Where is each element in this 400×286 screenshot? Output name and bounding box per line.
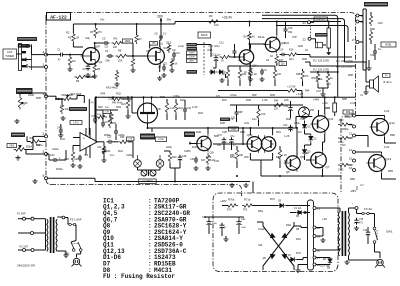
svg-text:R22: R22: [180, 98, 185, 102]
top rail left: [73, 23, 163, 25]
svg-text:R2: R2: [66, 31, 70, 35]
svg-text:R28: R28: [36, 96, 41, 100]
svg-text:R9: R9: [209, 14, 213, 18]
svg-text:22K: 22K: [113, 46, 118, 49]
svg-text:R15: R15: [208, 48, 213, 52]
svg-text:15: 15: [349, 157, 353, 161]
svg-text:R34: R34: [106, 150, 111, 153]
svg-text:R32: R32: [116, 92, 121, 96]
svg-text:.068: .068: [105, 60, 110, 63]
jack J2: [141, 170, 147, 176]
white label j40: [228, 127, 238, 131]
svg-text:1K: 1K: [222, 73, 225, 76]
svg-text:1K: 1K: [270, 54, 273, 58]
svg-text:0.22: 0.22: [350, 101, 356, 105]
wire right mid bus: [310, 71, 338, 73]
capacitor C14: [281, 53, 283, 56]
resistor R34: [102, 144, 105, 156]
capacitor C21: [59, 129, 63, 131]
transistor Q9: [197, 136, 211, 150]
svg-text:56P: 56P: [252, 93, 257, 97]
connector strip power: [308, 200, 314, 270]
svg-text:(2K): (2K): [289, 58, 294, 61]
svg-text:220u: 220u: [166, 145, 172, 149]
svg-text:R71a: R71a: [244, 198, 251, 202]
svg-text:(L): (L): [160, 44, 163, 46]
pin 19: [356, 14, 359, 17]
wire bridge to connector: [294, 245, 308, 247]
resistor R61 0.5ohm: [338, 136, 350, 139]
ground under balance pot: [17, 156, 19, 158]
wire balance to pin2: [25, 149, 33, 151]
capacitor C12: [233, 50, 237, 52]
svg-text:C9: C9: [172, 48, 176, 52]
capacitor C22: [53, 158, 55, 162]
svg-text:Q7: Q7: [326, 165, 330, 169]
pin 21b: [313, 207, 316, 210]
wire pin28 stub: [298, 264, 308, 266]
board outline right edge: [341, 17, 356, 192]
transistor Q4 (2SC2240): [239, 50, 253, 64]
svg-text:22K: 22K: [118, 60, 123, 63]
svg-text:R181: R181: [385, 42, 392, 46]
resistor row r43: [273, 68, 276, 80]
ground under volume pot: [16, 119, 18, 121]
svg-text:4u7: 4u7: [238, 59, 243, 63]
svg-text:C5: C5: [105, 45, 109, 49]
svg-text:0.22: 0.22: [384, 145, 390, 149]
svg-text:C15: C15: [288, 27, 293, 30]
svg-text:250K: 250K: [28, 93, 34, 97]
transistor Q12 (2SD736A): [372, 119, 389, 136]
svg-text:C10: C10: [176, 53, 181, 55]
svg-text:17: 17: [352, 38, 356, 42]
label R81: [381, 42, 396, 47]
transformer center tap: [340, 249, 346, 251]
svg-text:1u: 1u: [378, 47, 381, 51]
svg-text:C35: C35: [222, 130, 227, 134]
svg-text:(B): (B): [91, 102, 94, 104]
svg-text:C20a: C20a: [56, 97, 63, 101]
connector inner components: [369, 14, 372, 26]
white label 2.2m: [156, 137, 167, 142]
resistor R62: [338, 163, 350, 166]
pin 14: [353, 151, 356, 154]
svg-text:R73: R73: [296, 251, 301, 255]
svg-text:R83: R83: [388, 169, 393, 173]
balance pot: [14, 148, 27, 151]
dark label volume: [16, 88, 33, 94]
svg-text:R23: R23: [198, 111, 203, 115]
wire r44: [297, 90, 302, 92]
capacitor C31 56P: [235, 111, 239, 113]
white label VR2: [7, 144, 17, 148]
svg-text:C34: C34: [244, 121, 249, 125]
white label bias box: [198, 32, 211, 38]
transistor Q6 (2SA970): [265, 37, 280, 52]
svg-text:2.2K: 2.2K: [192, 105, 198, 109]
svg-text:C25a: C25a: [126, 153, 133, 157]
svg-text:R51: R51: [276, 130, 281, 134]
svg-text:TUNER: TUNER: [5, 54, 14, 58]
preout relay box: [316, 42, 323, 48]
svg-text:R34a: R34a: [56, 167, 63, 171]
svg-text:+1.2V: +1.2V: [296, 92, 303, 96]
svg-text:R80: R80: [370, 27, 375, 31]
resistor R40 vert: [168, 151, 171, 163]
wire pin3 lead: [26, 153, 45, 155]
svg-text:SW1: SW1: [386, 230, 393, 234]
ground under transformer: [346, 260, 348, 262]
svg-text:C2p: C2p: [85, 36, 90, 40]
wire f3: [356, 210, 358, 214]
bridge connections: [262, 222, 264, 226]
svg-text:R22: R22: [179, 107, 184, 110]
wire r9 to q2 drop: [122, 42, 134, 44]
svg-text:1K: 1K: [306, 151, 309, 155]
svg-text:0.5: 0.5: [284, 159, 288, 163]
cap C45 470: [354, 219, 359, 221]
cap C37 100uF: [222, 139, 227, 141]
wire preout path: [286, 21, 308, 23]
wire bottom mid: [164, 150, 170, 152]
svg-text:F1 3A: F1 3A: [294, 206, 301, 210]
svg-text:0.5: 0.5: [216, 94, 220, 98]
resistor row r40: [226, 68, 229, 80]
bias diode D1: [302, 124, 306, 128]
svg-text:C12 .047µ: C12 .047µ: [209, 45, 221, 48]
svg-text:470: 470: [98, 31, 103, 34]
wire q5 collector up: [296, 128, 298, 156]
svg-text:220: 220: [378, 21, 383, 25]
svg-text:+: +: [83, 136, 85, 140]
svg-text:50P: 50P: [96, 47, 101, 49]
svg-text:1u: 1u: [60, 104, 63, 108]
svg-text:C30: C30: [187, 107, 192, 110]
series resistor R9 100: [207, 20, 220, 23]
svg-text:1K: 1K: [175, 64, 178, 66]
svg-text:C1: C1: [57, 48, 61, 52]
diode D7 scp: [291, 257, 295, 261]
title box AF-122: [47, 13, 71, 21]
capacitor C10q2: [172, 53, 176, 55]
svg-text:R47: R47: [201, 159, 206, 162]
svg-text:22K: 22K: [274, 108, 279, 111]
resistor R8b: [131, 57, 134, 68]
svg-text:R40: R40: [172, 156, 177, 159]
wire c31: [236, 105, 238, 110]
resistor R50 30K: [235, 148, 238, 161]
svg-text:R24: R24: [284, 41, 289, 45]
svg-text:1K: 1K: [305, 48, 308, 52]
svg-text:R53: R53: [230, 155, 235, 159]
diode D8 at connector: [328, 259, 332, 263]
resistor R9 horiz: [112, 41, 124, 44]
svg-text:R20: R20: [160, 95, 165, 99]
svg-text:100: 100: [214, 23, 219, 27]
fuse F3: [362, 212, 364, 214]
svg-text:3: 3: [43, 150, 45, 154]
speaker symbol: [370, 80, 374, 88]
svg-text:C28b: C28b: [184, 149, 191, 153]
ground symbols bottom: [231, 183, 233, 185]
svg-text:Q1: Q1: [99, 60, 103, 64]
capacitor C15 100P: [284, 28, 288, 30]
resistor R57 vert: [326, 72, 329, 84]
pin 22: [308, 37, 311, 40]
svg-text:KR2 44kΩ: KR2 44kΩ: [106, 87, 118, 90]
resistor R11b 1K: [170, 58, 173, 68]
diode pair d10: [211, 70, 215, 74]
wire cap rail: [204, 216, 244, 218]
resistor R21 2.2K: [165, 101, 168, 114]
protection wire right: [286, 205, 310, 207]
svg-text:1.5K: 1.5K: [262, 98, 268, 102]
wire diode drop: [225, 74, 227, 78]
dark label bass: [69, 107, 87, 111]
svg-text:1000: 1000: [241, 227, 247, 229]
white label 180k: [123, 39, 133, 43]
wire R30: [40, 141, 46, 143]
svg-text:R72: R72: [270, 197, 275, 201]
transformer T1 core: [341, 211, 343, 256]
resistor R35: [118, 140, 130, 143]
dark label stack row6: [187, 70, 198, 74]
rail drops: [135, 158, 137, 182]
svg-text:R49: R49: [196, 130, 201, 134]
resistor R16: [249, 66, 252, 77]
svg-text:C42: C42: [283, 124, 288, 127]
capacitor C9: [260, 70, 264, 72]
dark label stack row2: [187, 47, 198, 50]
svg-text:R33: R33: [116, 105, 121, 109]
svg-text:30K: 30K: [239, 154, 244, 157]
svg-text:9: 9: [43, 174, 45, 178]
cap C38: [229, 139, 234, 141]
resistor R38 1.5K: [257, 107, 260, 120]
bias diode D2: [309, 136, 313, 140]
dark label speaker system: [364, 2, 388, 7]
svg-text:F1 3AF: F1 3AF: [17, 212, 26, 216]
svg-text:10HZ: 10HZ: [189, 53, 195, 55]
pin 5: [45, 95, 48, 98]
svg-text:+28V: +28V: [220, 199, 227, 203]
svg-text:D9a: D9a: [286, 223, 291, 227]
wire rails join: [163, 23, 175, 25]
resistor row r41: [238, 68, 241, 80]
resistor R20 rect: [327, 28, 330, 48]
svg-text:C44: C44: [258, 244, 263, 247]
svg-text:R60a: R60a: [342, 127, 349, 131]
svg-text:R84: R84: [350, 177, 355, 181]
pair top leads: [249, 128, 251, 135]
svg-text:C24: C24: [74, 158, 79, 161]
svg-text:2.2m: 2.2m: [158, 138, 164, 141]
wire q13 leads: [356, 162, 369, 164]
svg-text:8 ohm: 8 ohm: [384, 80, 393, 84]
pair bottom leads: [249, 153, 251, 160]
svg-text:-28: -28: [322, 257, 326, 261]
svg-text:R18: R18: [289, 49, 294, 52]
svg-text:FU 220 1/2W: FU 220 1/2W: [336, 59, 353, 63]
svg-text:R65: R65: [342, 97, 347, 101]
wire R18 right: [297, 54, 310, 56]
Q2 drain wire: [159, 40, 161, 47]
svg-text:Q11: Q11: [328, 117, 334, 121]
wire C22 on: [58, 159, 66, 161]
svg-text:R31: R31: [60, 137, 65, 141]
wire Q4-Q6 coupling: [250, 44, 252, 48]
svg-text:13: 13: [349, 132, 353, 136]
resistor row r42: [248, 68, 251, 80]
transformer T2 core: [50, 217, 52, 253]
svg-text:C24: C24: [97, 146, 102, 149]
svg-text:C21: C21: [108, 97, 113, 101]
board outline left edge: [46, 20, 51, 185]
svg-text:R41: R41: [242, 73, 247, 76]
jack J4: [156, 160, 164, 168]
wire ic1 out: [98, 141, 105, 143]
svg-text:VR4 44kB: VR4 44kB: [70, 93, 82, 96]
resistor R8c vert: [115, 70, 118, 81]
svg-text:R21: R21: [122, 103, 127, 106]
svg-text:R26: R26: [302, 57, 307, 61]
resistor R17: [275, 54, 278, 65]
pin 4: [45, 53, 48, 56]
wire q2 drain label: [149, 44, 151, 49]
svg-text:R50: R50: [240, 130, 245, 134]
resistor R11: [167, 43, 170, 53]
svg-text:C44a: C44a: [258, 227, 265, 231]
svg-text:8.2K: 8.2K: [206, 155, 212, 159]
dark label phones: [315, 33, 328, 37]
dark label balance: [11, 133, 25, 138]
resistor R41h: [112, 97, 124, 100]
resistor R47 emitter: [206, 153, 209, 165]
svg-text:1u+: 1u+: [110, 153, 115, 157]
wire tone bus: [94, 110, 96, 117]
tone feed cluster: [95, 97, 97, 143]
capacitor C8 on drain: [159, 35, 163, 37]
svg-text:C50: C50: [370, 53, 375, 57]
svg-text:C22a: C22a: [52, 147, 59, 151]
ic1 pin stubs: [85, 128, 87, 136]
pin 21: [308, 21, 311, 24]
switch linkage dashed: [203, 42, 205, 75]
svg-text:C22: C22: [50, 154, 55, 157]
horizontal 220 wire 1: [310, 56, 352, 58]
svg-text:FU, 220 1/2W: FU, 220 1/2W: [313, 58, 330, 62]
protection resistor R71: [242, 204, 254, 207]
cap C40 1000uF: [207, 221, 212, 223]
svg-text:4K: 4K: [252, 37, 255, 39]
dark label input select: [17, 37, 37, 41]
svg-text:C28: C28: [182, 155, 187, 158]
svg-text:C14: C14: [279, 50, 284, 52]
jack J1: [134, 160, 142, 168]
cap C39 right: [288, 107, 293, 109]
svg-text:C33: C33: [214, 159, 219, 163]
wire to Q2 gate: [127, 55, 149, 57]
jack wires: [137, 167, 139, 170]
transformer T2 secondary leads: [57, 216, 62, 218]
wire to jacks: [128, 141, 133, 143]
wire C1 to gate: [65, 54, 84, 56]
resistor R8 22K: [116, 54, 129, 57]
svg-text:AF-122: AF-122: [50, 15, 67, 21]
dark label stack row5: [187, 59, 198, 63]
cap C13 electrolytic: [214, 57, 219, 59]
svg-text:1.2K: 1.2K: [252, 73, 257, 76]
svg-text:Q5: Q5: [286, 170, 290, 174]
capacitor C3 coupling: [104, 41, 106, 45]
transformer T2 right winding: [56, 219, 57, 251]
svg-text:50KA: 50KA: [26, 146, 32, 149]
pin 20: [356, 20, 359, 23]
wires around Q11: [324, 108, 326, 115]
pre-out label: [314, 17, 328, 21]
wire input to pin 4: [32, 54, 45, 56]
transistor Q13 (2SD736A): [369, 155, 386, 172]
resistor R44 horiz: [286, 89, 299, 92]
svg-text:1K: 1K: [330, 77, 333, 80]
svg-text:1.5K: 1.5K: [261, 113, 266, 116]
wire q9 collector: [207, 128, 209, 135]
svg-text:2A: 2A: [266, 58, 269, 62]
rail y128: [148, 127, 297, 129]
alt terminal 5: [31, 249, 34, 252]
dark label stack row4: [187, 55, 198, 59]
svg-text:R70: R70: [227, 209, 232, 212]
transistor Q11 upper: [312, 116, 328, 132]
svg-text:180K: 180K: [125, 40, 131, 43]
28V spur: [160, 19, 162, 24]
svg-text:C42: C42: [300, 117, 305, 121]
wire switch net: [197, 44, 204, 46]
top rail right: [205, 21, 341, 23]
svg-text:R41: R41: [118, 149, 123, 153]
svg-text:4.7K: 4.7K: [228, 117, 234, 121]
resistor R22: [174, 101, 177, 114]
svg-text:R37: R37: [222, 98, 227, 102]
svg-text:0.5Ω: 0.5Ω: [338, 169, 343, 172]
transistor Q2 (2SK117): [148, 48, 165, 65]
svg-text:C47: C47: [316, 89, 321, 93]
resistor R18 2.2K: [287, 53, 299, 56]
svg-text:1M: 1M: [76, 37, 79, 40]
resistor R33 vert: [71, 150, 74, 162]
svg-text:Q12: Q12: [389, 121, 395, 125]
svg-text:R14: R14: [244, 37, 249, 39]
svg-text:VR4: VR4: [100, 92, 106, 96]
pin 27b: [313, 256, 316, 259]
speaker label box: [383, 74, 391, 78]
wire pin13 to q13 area: [356, 135, 369, 137]
ground rail y181.5: [95, 181, 250, 183]
transformer T2 left winding: [47, 219, 48, 251]
svg-text:F3 1.6AF: F3 1.6AF: [70, 218, 82, 222]
pin 16: [353, 169, 356, 172]
svg-text:R45: R45: [274, 100, 279, 103]
white label jacks: [139, 179, 157, 184]
svg-text:R46: R46: [220, 121, 225, 125]
wire pin3 to C22: [46, 153, 49, 155]
svg-text:IC1: IC1: [84, 153, 89, 157]
Q2 source network: [159, 65, 161, 72]
bias trimmer VR5: [299, 107, 310, 118]
pin 24b: [313, 235, 316, 238]
svg-text:R12: R12: [164, 48, 169, 50]
